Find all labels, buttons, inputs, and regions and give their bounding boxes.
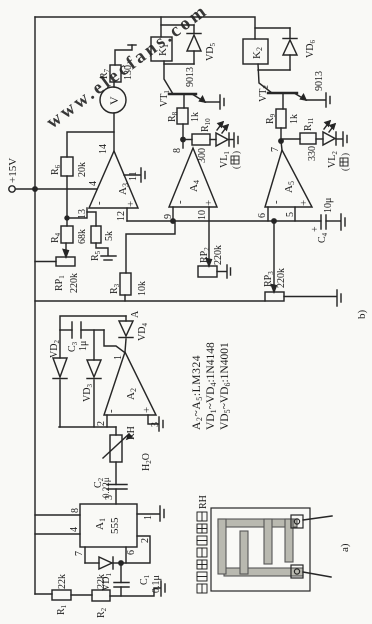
- svg-text:-: -: [270, 200, 282, 204]
- wire A5 pin6 leg: [267, 207, 269, 221]
- wire R3 jog to bus1: [126, 221, 175, 273]
- diode VD5: [193, 51, 195, 64]
- svg-text:12: 12: [116, 211, 127, 221]
- junction rail/+15V feed: [33, 187, 37, 191]
- svg-text:): ): [340, 153, 350, 156]
- +15V terminal: [9, 186, 15, 192]
- svg-text:(: (: [340, 168, 350, 171]
- electrode finger 2: [240, 531, 248, 574]
- op-amp A2: [104, 352, 156, 415]
- wire 555 pin1 to ground: [137, 513, 159, 515]
- sensor lead wires: [303, 516, 332, 520]
- svg-text:-: -: [105, 409, 117, 413]
- svg-text:4: 4: [69, 527, 80, 532]
- svg-text:5k: 5k: [104, 231, 115, 241]
- resistor R10 300: [192, 134, 210, 145]
- diode VD6: [289, 55, 291, 70]
- svg-text:7: 7: [74, 551, 85, 556]
- resistor R9 1k: [276, 109, 286, 128]
- svg-text:0.1μ: 0.1μ: [151, 575, 162, 593]
- diode VD2: [59, 380, 61, 427]
- svg-text:10: 10: [197, 210, 208, 220]
- label (green): [340, 153, 350, 171]
- diode VD1: [113, 562, 121, 564]
- svg-text:2: 2: [96, 421, 107, 426]
- svg-text:7: 7: [270, 147, 281, 152]
- node wire A2 inverting input: [59, 426, 116, 428]
- node wire pin2/pin6: [121, 536, 150, 563]
- diode VD3: [93, 380, 95, 427]
- ground (VL2): [342, 132, 344, 146]
- wire R10 drop from A4 output: [183, 139, 192, 141]
- resistor R1: [52, 590, 71, 600]
- node junction VD1/C1/pin6: [119, 561, 123, 565]
- wire 555 pin6: [125, 547, 127, 563]
- parts list text: [191, 342, 232, 430]
- ground (A3 pin11): [124, 174, 140, 176]
- svg-text:220k: 220k: [69, 273, 80, 293]
- svg-text:): ): [231, 151, 241, 154]
- wire 555 pin3 output: [115, 489, 117, 504]
- svg-text:1k: 1k: [289, 114, 300, 124]
- ground (VT1 emitter): [219, 95, 221, 109]
- label a): [339, 543, 351, 552]
- svg-text:+: +: [310, 226, 321, 232]
- wire VD1 to 555 pin7: [84, 547, 86, 563]
- svg-text:330: 330: [307, 146, 318, 161]
- voltmeter V: [100, 87, 126, 113]
- svg-text:+: +: [203, 200, 215, 206]
- svg-text:RH: RH: [126, 426, 137, 440]
- wire A2 pin3 leg to ground: [148, 415, 158, 424]
- resistor R6 20k: [61, 157, 73, 176]
- IC A1 555 timer: [80, 504, 137, 547]
- wire A3 pin12 leg to bus1: [126, 208, 128, 221]
- svg-text:A: A: [130, 310, 141, 318]
- svg-text:+15V: +15V: [7, 158, 19, 183]
- sensor detail figure: [211, 508, 310, 591]
- wire A3 output to V meter: [113, 113, 115, 151]
- capacitor C4 10u: [320, 215, 322, 229]
- ground (A2 pin3): [158, 417, 160, 431]
- svg-text:b): b): [356, 310, 368, 320]
- svg-text:220k: 220k: [276, 268, 287, 288]
- svg-text:20k: 20k: [77, 162, 88, 177]
- label b): [356, 310, 368, 320]
- watermark www.elecfans.com: [42, 0, 212, 133]
- wire V to R7: [113, 82, 115, 87]
- svg-text:9: 9: [163, 214, 174, 219]
- electrode finger top: [218, 519, 226, 574]
- wire R1-R2: [71, 594, 92, 596]
- wire node A to C3 row: [60, 316, 126, 330]
- wire A5 pin5 leg: [294, 207, 296, 221]
- resistor R11 330: [300, 133, 316, 144]
- wire C2 to RH: [115, 462, 117, 485]
- wire R4/R6 node to A3 pin13: [67, 208, 87, 218]
- svg-text:+: +: [125, 201, 137, 207]
- wire R11 drop from A5 output: [281, 138, 300, 140]
- wire R5 to pin13 leg: [87, 212, 96, 226]
- wire R7 to terminal stub: [115, 45, 132, 65]
- wire A4 output node: [182, 124, 184, 148]
- electrode right spine: [218, 519, 297, 527]
- wire K1/VD5 left link: [164, 63, 194, 65]
- svg-text:10k: 10k: [137, 281, 148, 296]
- right edge wire to relays: [35, 17, 255, 39]
- +15V supply rail: [34, 17, 36, 594]
- svg-text:8: 8: [172, 148, 183, 153]
- bus1 (comparator input bus): [127, 220, 321, 222]
- LED VL1: [210, 139, 216, 141]
- wire VD5/K1 right link: [161, 24, 194, 26]
- svg-text:5: 5: [285, 212, 296, 217]
- wire R4 to R6: [66, 176, 68, 226]
- svg-text:-: -: [174, 200, 186, 204]
- wire RP1 to R4: [65, 243, 67, 257]
- svg-text:+: +: [298, 200, 310, 206]
- wire rail to RP1: [35, 261, 56, 263]
- wire K2/VD6 left link: [258, 69, 290, 71]
- svg-text:130: 130: [123, 65, 134, 80]
- humidity sensor RH: [110, 435, 122, 462]
- svg-text:-: -: [93, 201, 105, 205]
- svg-text:V: V: [107, 96, 121, 105]
- svg-text:(: (: [231, 166, 241, 169]
- ground (R5): [101, 255, 116, 257]
- wire RP3 to ground: [284, 296, 336, 298]
- svg-text:220k: 220k: [213, 245, 224, 265]
- resistor R7 130: [110, 65, 121, 82]
- op-amp A3: [89, 151, 138, 208]
- wire R2 down to ground: [110, 588, 160, 596]
- transistor VT2 9013: [268, 92, 297, 94]
- resistor R8 1k: [177, 108, 188, 124]
- potentiometer RP1 220k: [56, 257, 75, 266]
- sensor detail caption (CJK pseudo-glyphs): [197, 495, 209, 593]
- wire 555 pin8 to rail: [35, 514, 80, 516]
- capacitor C2: [107, 488, 127, 490]
- svg-text:1μ: 1μ: [78, 341, 89, 351]
- wire K1 to right edge: [160, 17, 162, 37]
- resistor R5 5k: [91, 226, 101, 243]
- svg-text:a): a): [339, 543, 351, 552]
- wire 555 pin4 to rail: [35, 533, 80, 535]
- svg-text:+: +: [141, 407, 153, 413]
- svg-text:68k: 68k: [77, 229, 88, 244]
- wire A4 pin9 leg: [172, 207, 174, 221]
- wire RH to A2 pin2 node: [115, 427, 117, 435]
- capacitor C1: [120, 587, 122, 596]
- wire RP2 wiper bar: [217, 271, 226, 273]
- potentiometer RP3 220k: [265, 292, 284, 301]
- wire A2 pin2 leg: [106, 415, 108, 427]
- svg-text:11: 11: [128, 171, 139, 181]
- svg-text:9013: 9013: [314, 71, 325, 91]
- svg-text:4: 4: [88, 181, 99, 186]
- capacitor C3 feedback: [60, 329, 72, 331]
- svg-text:14: 14: [98, 144, 109, 154]
- resistor R3 10k: [120, 273, 131, 295]
- op-amp A4: [169, 148, 217, 207]
- sensor pad 2: [291, 565, 303, 578]
- wire A4 pin10 leg to RP2: [208, 207, 210, 266]
- wire A5 output node: [281, 128, 282, 150]
- potentiometer RP2 220k: [198, 266, 217, 277]
- ground (VL1): [233, 133, 235, 147]
- svg-text:1k: 1k: [190, 112, 201, 122]
- relay K2: [243, 39, 268, 64]
- svg-text:6: 6: [126, 550, 137, 555]
- transistor VT1 9013: [169, 93, 196, 95]
- wire R9 to VT2 base: [282, 94, 284, 109]
- label (red): [231, 151, 241, 169]
- op-amp A5: [265, 150, 312, 207]
- left edge wire from rail: [35, 593, 52, 595]
- ground (555 pin1): [159, 506, 161, 521]
- node A: [130, 310, 141, 318]
- sensor pad 1: [291, 515, 303, 528]
- svg-text:300: 300: [197, 148, 208, 163]
- electrode left spine: [224, 568, 303, 576]
- wire VD6/K2 right link: [255, 27, 290, 29]
- ground (RP3): [336, 290, 338, 306]
- bus2 wire from rail: [35, 300, 265, 302]
- svg-text:0.22μ: 0.22μ: [101, 477, 111, 498]
- svg-text:8: 8: [70, 508, 81, 513]
- svg-text:1: 1: [143, 515, 154, 520]
- ground (C4): [340, 214, 342, 230]
- wire R6 to V meter branch: [67, 132, 114, 157]
- relay K1: [151, 37, 172, 61]
- wire rail to A3 pin4: [35, 188, 97, 190]
- svg-text:1: 1: [113, 355, 124, 360]
- svg-text:9013: 9013: [185, 67, 196, 87]
- ground (VT2 emitter): [325, 93, 327, 107]
- electrode finger 4: [285, 519, 293, 562]
- electrode finger 3: [264, 519, 272, 564]
- diode VD4: [125, 339, 126, 352]
- svg-text:555: 555: [109, 517, 121, 534]
- svg-text:2: 2: [140, 538, 151, 543]
- resistor R4 68k: [61, 226, 73, 243]
- wire C3 to A2 output: [104, 330, 124, 352]
- svg-text:6: 6: [257, 213, 268, 218]
- svg-text:RH: RH: [198, 495, 209, 509]
- svg-text:22k: 22k: [57, 574, 68, 589]
- resistor R2: [92, 590, 110, 601]
- svg-text:10μ: 10μ: [323, 198, 334, 213]
- wire RP3 top to bus1: [273, 221, 275, 292]
- svg-text:13: 13: [77, 209, 88, 219]
- ground (left edge): [160, 581, 162, 596]
- wire R5 to ground: [96, 243, 108, 255]
- LED VL2: [316, 138, 323, 140]
- wire R8 to VT1 base: [183, 95, 185, 108]
